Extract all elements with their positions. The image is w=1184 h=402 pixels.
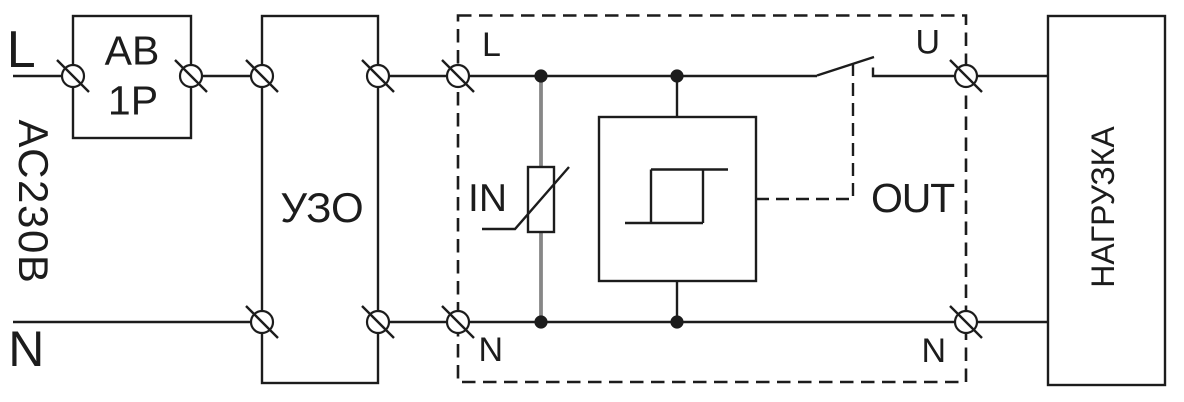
wire AB to UZO xyxy=(191,75,262,77)
RCD UZO box xyxy=(262,16,378,383)
svg-text:АВ: АВ xyxy=(105,28,160,74)
svg-text:L: L xyxy=(482,26,501,64)
relay branch wire top xyxy=(676,76,678,117)
node L-varistor xyxy=(534,69,547,82)
svg-text:L: L xyxy=(7,21,36,79)
terminal UZO N right xyxy=(362,306,394,338)
wire L bus inside device xyxy=(458,75,817,77)
terminal device L in xyxy=(442,60,474,92)
wire UZO to device N xyxy=(378,321,458,323)
terminal AB left xyxy=(57,60,89,92)
control link dashed xyxy=(756,63,853,199)
varistor IN xyxy=(528,167,554,232)
node N-relay xyxy=(670,315,683,328)
wire L input xyxy=(13,75,74,77)
wire device to load N xyxy=(966,321,1048,323)
wire UZO to device L xyxy=(378,75,458,77)
relay U1 box xyxy=(599,117,756,281)
terminal AB right xyxy=(175,60,207,92)
wire device to load L xyxy=(966,75,1048,77)
svg-text:OUT: OUT xyxy=(871,175,955,221)
load box xyxy=(1048,16,1165,385)
terminal UZO L right xyxy=(362,60,394,92)
svg-text:N: N xyxy=(8,321,44,377)
terminal device N out xyxy=(950,306,982,338)
switch fixed contact xyxy=(873,68,966,77)
svg-text:IN: IN xyxy=(468,177,507,220)
svg-text:U: U xyxy=(916,24,941,62)
wire N input xyxy=(13,321,262,323)
junction dots xyxy=(534,69,683,328)
circuit breaker AB 1P box xyxy=(73,16,191,138)
svg-text:АС230В: АС230В xyxy=(10,119,57,284)
svg-text:N: N xyxy=(922,332,947,370)
node L-relay xyxy=(670,69,683,82)
relay branch wire bottom xyxy=(676,281,678,322)
svg-text:1Р: 1Р xyxy=(108,78,158,124)
device dashed enclosure xyxy=(458,16,966,383)
svg-text:УЗО: УЗО xyxy=(280,184,363,231)
svg-text:НАГРУЗКА: НАГРУЗКА xyxy=(1085,126,1121,288)
terminal UZO L left xyxy=(246,60,278,92)
terminal UZO N left xyxy=(246,306,278,338)
hysteresis symbol xyxy=(625,170,728,224)
node N-varistor xyxy=(534,315,547,328)
wire N bus inside device xyxy=(458,321,966,323)
switch blade xyxy=(817,57,874,76)
wire varistor branch (gray) xyxy=(539,76,543,322)
terminal device U out xyxy=(950,60,982,92)
terminal device N in xyxy=(442,306,474,338)
svg-text:N: N xyxy=(479,331,504,369)
